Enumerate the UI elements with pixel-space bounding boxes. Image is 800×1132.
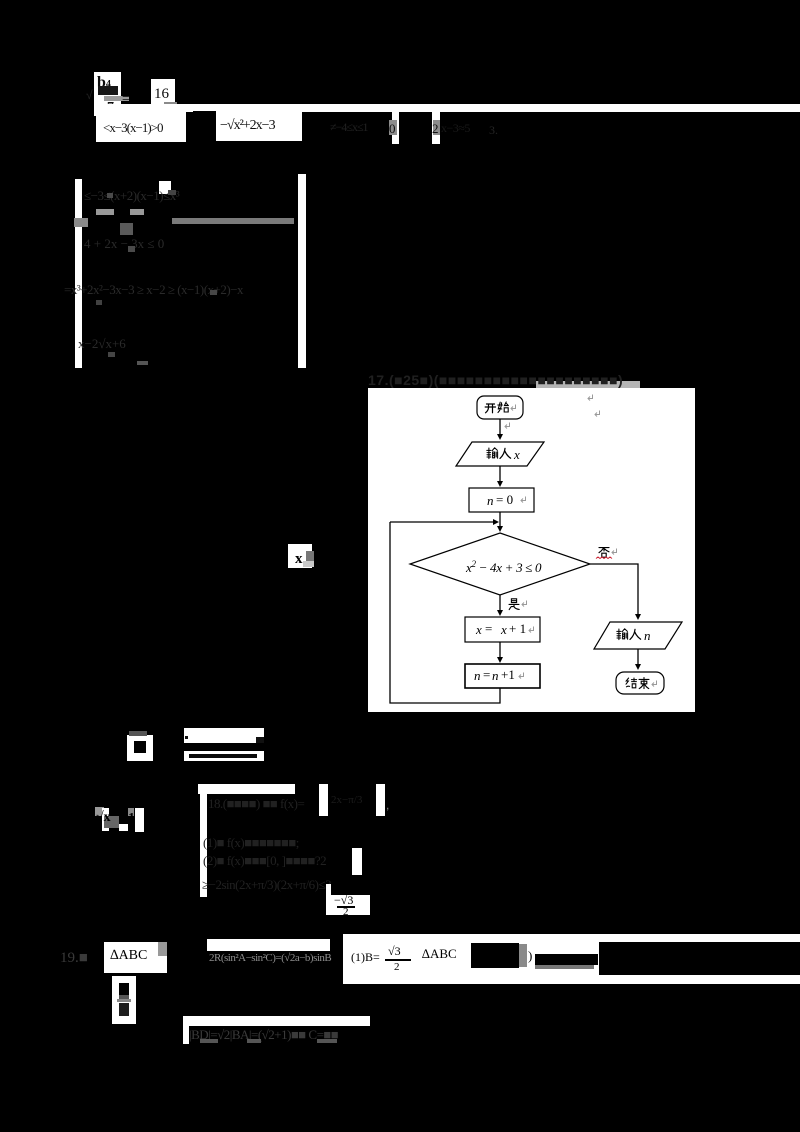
svg-text:x: x [475, 622, 482, 637]
system long gray rule [172, 218, 294, 224]
problem 18: left white edge bar [200, 794, 207, 897]
system row 4 faint math [78, 336, 126, 352]
loop entry arrow [390, 521, 493, 523]
system row 2 faint math [84, 236, 164, 252]
label 是 [509, 599, 519, 610]
svg-text:n: n [487, 493, 494, 508]
arrow to end [637, 649, 639, 665]
top formula row 1: white patch A with fraction [94, 72, 121, 116]
problem 18 number cluster with white bits [95, 807, 104, 816]
top row 2: long thin white strip to page edge [96, 104, 800, 112]
svg-text:n: n [644, 628, 651, 643]
problem 18: white top strip [198, 784, 295, 794]
arrow start->input [499, 419, 501, 435]
system row 3 faint math [64, 282, 243, 298]
parallelogram 输入x [456, 442, 544, 466]
top row 2: black box [193, 111, 216, 143]
arrow to n=n+1 [499, 642, 501, 658]
process x=x+1 [465, 617, 540, 642]
svg-text:+1: +1 [501, 667, 515, 682]
system block: left white bracket bar [75, 179, 82, 368]
problem 19: white tall patch with fraction glyph [112, 976, 136, 1024]
top row 2: white bar with gray 2 [432, 111, 440, 144]
problem 19: faint number [60, 950, 88, 967]
end terminal 结束 [616, 672, 664, 694]
process n=0 [469, 488, 534, 512]
svg-text:x2 − 4x + 3 ≤ 0: x2 − 4x + 3 ≤ 0 [465, 559, 542, 575]
stray pilcrows top right [588, 395, 593, 401]
arrow input->n=0 [499, 466, 501, 482]
blank-answer white bar lower with rule [184, 751, 264, 761]
problem 18: bracket white bars [319, 784, 328, 816]
problem 19: triangle text [422, 946, 457, 962]
white background of flowchart image [368, 388, 695, 712]
system row 1 faint math [84, 188, 179, 204]
arrow n=0 -> diamond [499, 512, 501, 527]
system block: right white bracket bar [298, 174, 306, 368]
top row 2: black notch [186, 112, 193, 142]
problem 18: faint statement line [208, 796, 304, 812]
system block: small white patch [159, 181, 171, 194]
bottom row: white left edge [183, 1026, 189, 1044]
problem 19: black inset rectangle [599, 942, 800, 975]
svg-text:=: = [485, 621, 492, 636]
problem 19: white strip over formula [207, 939, 330, 951]
problem 19: gray formula row [209, 952, 331, 964]
top row 2: white segment 2 with radical [216, 112, 302, 141]
process n=n+1 [465, 664, 540, 688]
system gray fraction dashes [96, 209, 114, 215]
svg-text:n: n [474, 668, 481, 683]
top row 2: faint dark fragments on black [330, 120, 368, 135]
svg-text:n: n [492, 668, 499, 683]
svg-text:=: = [483, 667, 490, 682]
bottom row: white strip [183, 1016, 370, 1026]
blank-answer icon (small window) [127, 735, 153, 761]
top formula row 1: white patch B with 16 [151, 79, 175, 114]
problem 19: fraction cluster [351, 950, 380, 965]
svg-text:x: x [513, 447, 520, 462]
bottom row: gray smudges [200, 1039, 218, 1043]
top row 2: white segment 1 with inequality [96, 112, 186, 142]
flowchart title: gray highlight band [536, 381, 640, 389]
flowchart image (white panel) [368, 388, 695, 712]
problem 19: white patch with triangle ABC [104, 942, 167, 973]
no-branch line right then down [590, 564, 638, 615]
top row 2: white bar with gray 0 [392, 111, 399, 144]
small white patch with x mark (question 2 label) [288, 544, 312, 568]
svg-text:= 0: = 0 [496, 492, 513, 507]
blank-answer white bar upper [184, 728, 264, 743]
problem 19: answer blank bar [535, 954, 598, 965]
problem 18: white patch with -√3/2 fraction [326, 884, 370, 915]
flowchart title: bold faint text row [368, 372, 623, 388]
problem 18: sub-question lines (faint) [203, 835, 299, 851]
bottom row: faint formula [189, 1027, 338, 1043]
top formula row 1: faint equals between patches [122, 90, 130, 105]
start terminal 开始 [477, 396, 523, 419]
label 否 with red squiggle [599, 548, 609, 558]
problem 19: big white band [343, 934, 800, 984]
arrow diamond -> x=x+1 [499, 595, 501, 611]
svg-text:+ 1: + 1 [509, 621, 526, 636]
svg-text:x: x [500, 622, 507, 637]
loop-back wire [390, 522, 500, 703]
parallelogram 输入n [594, 622, 682, 649]
decision diamond [410, 533, 590, 595]
